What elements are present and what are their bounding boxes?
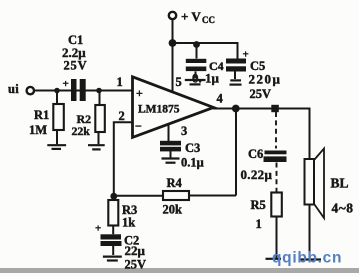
svg-text:ui: ui bbox=[8, 82, 19, 96]
